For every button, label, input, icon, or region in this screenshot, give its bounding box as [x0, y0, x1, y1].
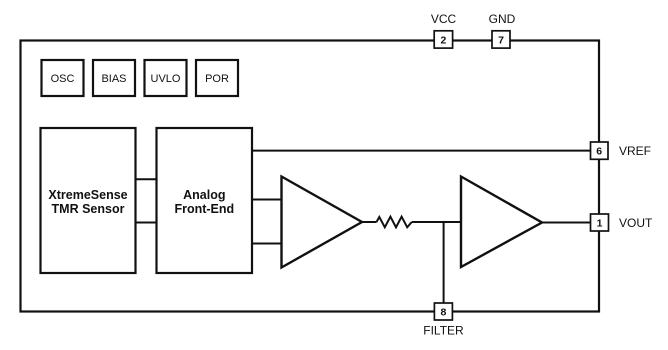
- resistor R1: [377, 217, 412, 228]
- wire amp2 output to VOUT pin 1: [542, 222, 591, 224]
- svg-text:1: 1: [597, 218, 603, 230]
- block POR: [196, 60, 238, 96]
- svg-text:POR: POR: [205, 73, 229, 85]
- svg-text:OSC: OSC: [51, 73, 75, 85]
- pin 6 VREF: [591, 142, 609, 159]
- block XtremeSense TMR Sensor: [41, 128, 136, 273]
- svg-text:VCC: VCC: [431, 12, 457, 26]
- svg-text:8: 8: [440, 307, 446, 319]
- block UVLO: [145, 60, 187, 96]
- wire junction to FILTER pin 8: [443, 222, 445, 303]
- wire AFE to amp1 lower input: [252, 243, 282, 245]
- svg-text:6: 6: [596, 146, 602, 158]
- svg-text:UVLO: UVLO: [151, 73, 181, 85]
- pin 7 GND: [492, 31, 510, 48]
- svg-text:XtremeSense: XtremeSense: [48, 188, 127, 202]
- svg-text:FILTER: FILTER: [423, 324, 464, 338]
- op-amp A2: [461, 177, 542, 268]
- wire resistor to amp2 input: [412, 221, 461, 223]
- svg-text:7: 7: [498, 35, 504, 47]
- wire amp1 output to resistor: [362, 221, 377, 223]
- wire TMR to AFE upper: [136, 178, 157, 180]
- op-amp A1: [282, 177, 363, 268]
- svg-text:GND: GND: [489, 12, 516, 26]
- pin 2 VCC: [434, 31, 452, 48]
- svg-text:BIAS: BIAS: [101, 73, 126, 85]
- svg-text:VOUT: VOUT: [619, 216, 653, 230]
- pin 8 FILTER: [434, 303, 452, 320]
- block Analog Front-End: [157, 128, 253, 273]
- svg-text:TMR Sensor: TMR Sensor: [52, 202, 125, 216]
- svg-text:Front-End: Front-End: [174, 202, 234, 216]
- svg-text:Analog: Analog: [183, 188, 225, 202]
- wire AFE to amp1 upper input: [252, 199, 282, 201]
- block OSC: [42, 60, 84, 96]
- IC outline U1: [21, 41, 600, 312]
- block BIAS: [93, 60, 135, 96]
- svg-text:2: 2: [440, 35, 446, 47]
- svg-text:VREF: VREF: [619, 144, 651, 158]
- wire TMR to AFE lower: [136, 222, 157, 224]
- pin 1 VOUT: [591, 214, 609, 231]
- wire AFE to VREF pin 6: [252, 150, 591, 152]
